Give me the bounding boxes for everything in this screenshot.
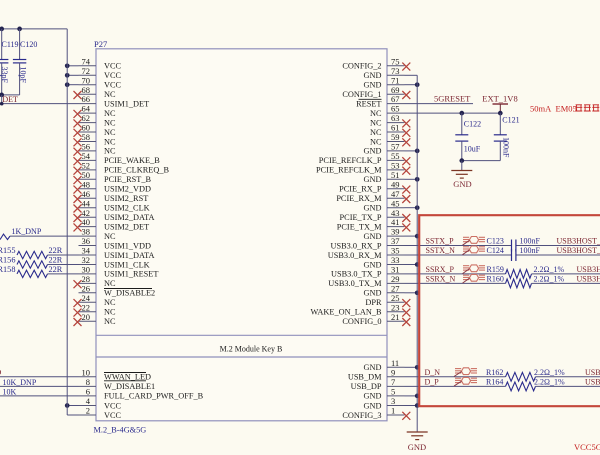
- pin 28 NC: [79, 282, 97, 284]
- wire D_P: [405, 385, 506, 387]
- pin 20 NC: [79, 320, 97, 322]
- svg-text:NC: NC: [370, 128, 382, 137]
- pin 23 WAKE_ON_LAN_B: [387, 311, 405, 313]
- svg-text:50mA: 50mA: [530, 104, 552, 114]
- capacitor C123 100nF: [511, 240, 513, 252]
- svg-text:67: 67: [391, 94, 400, 104]
- svg-text:VCC: VCC: [104, 81, 122, 90]
- svg-text:46: 46: [82, 189, 91, 199]
- capacitor C124 100nF: [511, 249, 513, 261]
- svg-text:R164: R164: [486, 378, 503, 387]
- svg-text:GND: GND: [364, 147, 382, 156]
- wire: [0, 385, 79, 387]
- svg-text:USB3.0_RX_M: USB3.0_RX_M: [328, 251, 382, 260]
- svg-text:PCIE_RST_B: PCIE_RST_B: [104, 175, 151, 184]
- svg-text:USB_DP: USB_DP: [351, 382, 382, 391]
- svg-text:GND: GND: [364, 204, 382, 213]
- pin 75 CONFIG_2: [387, 65, 405, 67]
- svg-text:R156: R156: [0, 256, 15, 265]
- svg-text:USB3HOST: USB3HOST: [577, 275, 600, 284]
- svg-text:1K_DNP: 1K_DNP: [12, 227, 42, 236]
- svg-text:EM05: EM05: [556, 104, 577, 114]
- svg-text:24: 24: [82, 293, 91, 303]
- pin 31 USB3.0_TX_P: [387, 273, 405, 275]
- svg-text:33pF: 33pF: [0, 67, 9, 84]
- pin 7 USB_DP: [387, 385, 405, 387]
- pin 69 CONFIG_1: [387, 93, 405, 95]
- svg-text:R158: R158: [0, 265, 15, 274]
- svg-text:PCIE_TX_M: PCIE_TX_M: [337, 222, 382, 231]
- svg-text:D: D: [0, 368, 2, 377]
- wire SSTX_P: [405, 245, 512, 247]
- svg-text:C124: C124: [487, 246, 504, 255]
- svg-text:10uF: 10uF: [464, 145, 481, 154]
- svg-text:EXT_1V8: EXT_1V8: [482, 93, 517, 103]
- resistor R160 2.2ohm: [506, 279, 532, 288]
- svg-text:NC: NC: [104, 128, 116, 137]
- svg-text:65: 65: [391, 104, 400, 114]
- svg-text:D_P: D_P: [425, 378, 440, 387]
- pin 3 GND: [387, 405, 405, 407]
- svg-text:37: 37: [391, 236, 400, 246]
- svg-text:R155: R155: [0, 246, 15, 255]
- pin 43 PCIE_TX_P: [387, 216, 405, 218]
- pin 60 NC: [79, 131, 97, 133]
- pin 62 NC: [79, 122, 97, 124]
- svg-text:34: 34: [82, 246, 91, 256]
- svg-text:VCC: VCC: [104, 62, 122, 71]
- svg-text:VCC: VCC: [104, 411, 122, 420]
- pin 11 GND: [387, 366, 405, 368]
- svg-text:R160: R160: [487, 275, 504, 284]
- svg-text:C120: C120: [20, 40, 37, 49]
- svg-text:75: 75: [391, 56, 400, 66]
- pin 10 WWAN_LED: [79, 376, 97, 378]
- svg-text:GND: GND: [364, 232, 382, 241]
- svg-text:GND: GND: [364, 175, 382, 184]
- svg-text:GND: GND: [408, 442, 426, 450]
- svg-text:47: 47: [391, 189, 400, 199]
- pin 45 GND: [387, 207, 405, 209]
- pin 8 W_DISABLE1: [79, 385, 97, 387]
- svg-text:SSRX_N: SSRX_N: [426, 275, 456, 284]
- pin 2 VCC: [79, 414, 97, 416]
- svg-text:R159: R159: [487, 265, 504, 274]
- pin 9 USB_DM: [387, 376, 405, 378]
- node caps bottom junction: [0, 93, 4, 98]
- svg-text:GND: GND: [364, 401, 382, 410]
- pin 68 NC: [79, 93, 97, 95]
- svg-text:C123: C123: [487, 237, 504, 246]
- svg-text:USB_: USB_: [585, 368, 600, 377]
- node C120 top junction: [17, 27, 22, 32]
- svg-text:USIM1_DET: USIM1_DET: [104, 99, 149, 108]
- svg-text:PCIE_RX_M: PCIE_RX_M: [336, 194, 382, 203]
- svg-text:11: 11: [391, 358, 399, 368]
- svg-text:USIM1_VDD: USIM1_VDD: [104, 241, 151, 250]
- svg-text:10K_DNP: 10K_DNP: [3, 378, 37, 387]
- svg-text:USB3HOST_RX_P: USB3HOST_RX_P: [557, 246, 600, 255]
- capacitor C120 10pF: [19, 29, 21, 60]
- wire D_N: [405, 376, 506, 378]
- resistor R158 22R: [17, 270, 48, 277]
- svg-text:NC: NC: [104, 109, 116, 118]
- svg-text:RESET: RESET: [356, 99, 381, 108]
- svg-text:DET: DET: [2, 95, 18, 104]
- svg-text:57: 57: [391, 142, 400, 152]
- wire EXT_1V8 rail: [405, 112, 501, 114]
- svg-text:USB3HOST_RX_P: USB3HOST_RX_P: [557, 237, 600, 246]
- wire USIM1_DET / DET net: [0, 103, 79, 105]
- svg-text:P27: P27: [94, 39, 107, 49]
- svg-text:NC: NC: [104, 118, 116, 127]
- svg-text:5: 5: [391, 387, 395, 397]
- svg-text:41: 41: [391, 217, 400, 227]
- svg-text:CONFIG_3: CONFIG_3: [342, 411, 381, 420]
- pin 27 GND: [387, 292, 405, 294]
- pin 5 GND: [387, 395, 405, 397]
- svg-text:22R: 22R: [49, 246, 63, 255]
- svg-text:USB3.0_RX_P: USB3.0_RX_P: [331, 241, 382, 250]
- pin 35 USB3.0_RX_M: [387, 254, 405, 256]
- ground (C122/C121): [461, 161, 463, 171]
- connector P27 body: [96, 49, 387, 421]
- svg-text:1: 1: [391, 406, 395, 416]
- svg-text:22R: 22R: [49, 256, 63, 265]
- svg-text:3: 3: [391, 396, 395, 406]
- pin 4 VCC: [79, 405, 97, 407]
- svg-text:M.2 Module Key B: M.2 Module Key B: [220, 345, 283, 354]
- svg-text:2: 2: [86, 406, 90, 416]
- svg-text:VCC: VCC: [104, 401, 122, 410]
- pin 40 USIM2_DET: [79, 226, 97, 228]
- svg-text:5GRESET: 5GRESET: [434, 93, 471, 103]
- svg-text:74: 74: [82, 56, 91, 66]
- pin 61 NC: [387, 131, 405, 133]
- pin 58 NC: [79, 141, 97, 143]
- diff pair directive: [455, 377, 477, 384]
- svg-text:USIM1_RESET: USIM1_RESET: [104, 270, 158, 279]
- pin 46 USIM2_RST: [79, 197, 97, 199]
- resistor R159 2.2ohm: [506, 270, 532, 279]
- pin 73 GND: [387, 74, 405, 76]
- svg-text:SSTX_N: SSTX_N: [426, 246, 456, 255]
- svg-text:44: 44: [82, 198, 91, 208]
- svg-text:30: 30: [82, 265, 91, 275]
- wire SSRX_N: [405, 282, 506, 284]
- wire SSRX_P: [405, 273, 506, 275]
- pin 25 DPR: [387, 301, 405, 303]
- pin 29 USB3.0_TX_M: [387, 282, 405, 284]
- svg-text:66: 66: [82, 94, 91, 104]
- svg-text:WAKE_ON_LAN_B: WAKE_ON_LAN_B: [311, 308, 382, 317]
- svg-text:10K: 10K: [3, 388, 17, 397]
- svg-text:25: 25: [391, 293, 400, 303]
- svg-text:6: 6: [86, 387, 90, 397]
- svg-text:61: 61: [391, 123, 400, 133]
- separator M.2 Module Key B: [96, 334, 387, 336]
- pin 47 PCIE_RX_M: [387, 197, 405, 199]
- svg-text:36: 36: [82, 236, 91, 246]
- diff pair directive: [463, 237, 485, 244]
- svg-text:NC: NC: [104, 232, 116, 241]
- svg-text:FULL_CARD_PWR_OFF_B: FULL_CARD_PWR_OFF_B: [104, 392, 204, 401]
- pin 21 CONFIG_0: [387, 320, 405, 322]
- pin 39 GND: [387, 235, 405, 237]
- svg-text:GND: GND: [364, 363, 382, 372]
- svg-text:PCIE_RX_P: PCIE_RX_P: [339, 185, 382, 194]
- svg-text:CONFIG_2: CONFIG_2: [342, 62, 381, 71]
- diff pair directive: [463, 246, 485, 253]
- wire: [0, 376, 79, 378]
- pin 71 GND: [387, 84, 405, 86]
- pin 24 NC: [79, 301, 97, 303]
- pin 22 NC: [79, 311, 97, 313]
- capacitor C121 100nF: [499, 113, 501, 135]
- pin 74 VCC: [79, 65, 97, 67]
- svg-text:PCIE_REFCLK_P: PCIE_REFCLK_P: [319, 156, 382, 165]
- wire 5GRESET: [405, 103, 474, 105]
- svg-text:100nF: 100nF: [520, 246, 541, 255]
- diff pair directive: [455, 368, 477, 375]
- svg-text:USB_: USB_: [585, 378, 600, 387]
- svg-text:NC: NC: [104, 90, 116, 99]
- svg-text:7: 7: [391, 377, 395, 387]
- svg-text:USB3.0_TX_M: USB3.0_TX_M: [328, 279, 382, 288]
- diff pair directive: [463, 274, 485, 281]
- resistor R162 2.2ohm: [506, 372, 536, 381]
- svg-text:M.2_B-4G&5G: M.2_B-4G&5G: [94, 425, 147, 434]
- svg-text:NC: NC: [104, 279, 116, 288]
- svg-text:D_N: D_N: [425, 368, 441, 377]
- svg-text:NC: NC: [104, 317, 116, 326]
- pin 37 USB3.0_RX_P: [387, 245, 405, 247]
- svg-text:GND: GND: [364, 71, 382, 80]
- node junction C121 top: [498, 111, 503, 116]
- svg-text:USIM2_CLK: USIM2_CLK: [104, 204, 150, 213]
- svg-text:USB_DM: USB_DM: [348, 373, 382, 382]
- svg-text:CONFIG_0: CONFIG_0: [342, 317, 381, 326]
- svg-text:8: 8: [86, 377, 90, 387]
- svg-text:NC: NC: [104, 298, 116, 307]
- svg-text:9: 9: [391, 367, 395, 377]
- pin 42 USIM2_DATA: [79, 216, 97, 218]
- svg-text:21: 21: [391, 312, 400, 322]
- svg-text:GND: GND: [364, 392, 382, 401]
- pin 44 USIM2_CLK: [79, 207, 97, 209]
- pin 63 NC: [387, 122, 405, 124]
- pin 64 NC: [79, 112, 97, 114]
- svg-text:GND: GND: [364, 260, 382, 269]
- svg-text:2.2Ω_1%: 2.2Ω_1%: [534, 265, 565, 274]
- svg-text:40: 40: [82, 217, 91, 227]
- node top-left junction: [0, 27, 4, 32]
- pin 50 PCIE_RST_B: [79, 178, 97, 180]
- pin 6 FULL_CARD_PWR_OFF_B: [79, 395, 97, 397]
- svg-text:NC: NC: [104, 137, 116, 146]
- svg-text:NC: NC: [104, 147, 116, 156]
- capacitor C122 10uF: [461, 113, 463, 135]
- svg-text:CONFIG_1: CONFIG_1: [342, 90, 381, 99]
- ground (main): [407, 432, 428, 440]
- pin 30 USIM1_RESET: [79, 273, 97, 275]
- wire: [0, 395, 79, 397]
- svg-text:56: 56: [82, 142, 91, 152]
- svg-text:100nF: 100nF: [502, 137, 511, 158]
- svg-text:NC: NC: [370, 109, 382, 118]
- svg-text:USB3HOST: USB3HOST: [577, 265, 600, 274]
- svg-text:70: 70: [82, 75, 91, 85]
- svg-text:NC: NC: [370, 118, 382, 127]
- svg-text:31: 31: [391, 265, 400, 275]
- svg-text:PCIE_REFCLK_M: PCIE_REFCLK_M: [316, 166, 382, 175]
- pin 51 GND: [387, 178, 405, 180]
- pin 66 USIM1_DET: [79, 103, 97, 105]
- svg-text:USB3.0_TX_P: USB3.0_TX_P: [331, 270, 382, 279]
- svg-text:NC: NC: [104, 308, 116, 317]
- resistor 1K DNP: [0, 234, 10, 240]
- svg-text:C119: C119: [2, 40, 19, 49]
- pin 1 CONFIG_3: [387, 414, 405, 416]
- pin 36 USIM1_VDD: [79, 245, 97, 247]
- pin 72 VCC: [79, 74, 97, 76]
- red highlight region: [419, 215, 600, 406]
- pin 49 PCIE_RX_P: [387, 188, 405, 190]
- svg-text:50: 50: [82, 170, 91, 180]
- node junction caps bottom: [459, 158, 464, 163]
- node junction C122 top: [459, 111, 464, 116]
- svg-text:GND: GND: [364, 81, 382, 90]
- wire VCC vertical bus: [66, 29, 68, 415]
- pin 53 PCIE_REFCLK_M: [387, 169, 405, 171]
- svg-text:10: 10: [82, 367, 91, 377]
- svg-text:WWAN_LED: WWAN_LED: [104, 373, 151, 382]
- svg-text:20: 20: [82, 312, 91, 322]
- resistor R155 22R: [17, 251, 48, 258]
- pin 54 PCIE_WAKE_B: [79, 159, 97, 161]
- resistor R156 22R: [17, 261, 48, 268]
- resistor R164 2.2ohm: [506, 382, 536, 391]
- svg-text:SSTX_P: SSTX_P: [426, 237, 455, 246]
- svg-text:51: 51: [391, 170, 400, 180]
- svg-text:2.2Ω_1%: 2.2Ω_1%: [534, 368, 565, 377]
- svg-text:27: 27: [391, 283, 400, 293]
- pin 67 RESET: [387, 103, 405, 105]
- svg-text:GND: GND: [364, 289, 382, 298]
- svg-text:PCIE_WAKE_B: PCIE_WAKE_B: [104, 156, 160, 165]
- pin 57 GND: [387, 150, 405, 152]
- svg-text:SSRX_P: SSRX_P: [426, 265, 455, 274]
- svg-text:USIM2_DET: USIM2_DET: [104, 222, 149, 231]
- pin 59 NC: [387, 141, 405, 143]
- svg-text:R162: R162: [486, 368, 503, 377]
- pin 65 NC: [387, 112, 405, 114]
- pin 32 USIM1_CLK: [79, 264, 97, 266]
- svg-text:2.2Ω_1%: 2.2Ω_1%: [534, 275, 565, 284]
- svg-text:55: 55: [391, 151, 400, 161]
- wire top horizontal: [0, 28, 67, 30]
- svg-text:PCIE_CLKREQ_B: PCIE_CLKREQ_B: [104, 166, 169, 175]
- capacitor C119 33pF: [1, 29, 3, 60]
- pin 52 PCIE_CLKREQ_B: [79, 169, 97, 171]
- svg-text:60: 60: [82, 123, 91, 133]
- svg-text:USIM1_DATA: USIM1_DATA: [104, 251, 155, 260]
- pin 34 USIM1_DATA: [79, 254, 97, 256]
- svg-text:54: 54: [82, 151, 91, 161]
- pin 56 NC: [79, 150, 97, 152]
- note chinese chars: [575, 105, 599, 111]
- pin 33 GND: [387, 264, 405, 266]
- pin 38 NC: [79, 235, 97, 237]
- power port EXT_1V8: [493, 103, 509, 105]
- svg-text:PCIE_TX_P: PCIE_TX_P: [340, 213, 382, 222]
- svg-text:45: 45: [391, 198, 400, 208]
- svg-text:W_DISABLE2: W_DISABLE2: [104, 289, 155, 298]
- wire down to DET: [1, 95, 3, 104]
- pin 26 W_DISABLE2: [79, 292, 97, 294]
- wire caps bottom: [462, 160, 501, 162]
- svg-text:100nF: 100nF: [520, 237, 541, 246]
- wire GND bus: [416, 75, 418, 432]
- svg-text:VCC5G: VCC5G: [574, 442, 600, 450]
- svg-text:C121: C121: [502, 115, 519, 124]
- svg-text:26: 26: [82, 283, 91, 293]
- pin 70 VCC: [79, 84, 97, 86]
- svg-text:35: 35: [391, 246, 400, 256]
- svg-text:C122: C122: [464, 119, 481, 128]
- svg-text:2.2Ω_1%: 2.2Ω_1%: [534, 378, 565, 387]
- svg-text:NC: NC: [370, 137, 382, 146]
- wire SSTX_N: [405, 254, 512, 256]
- svg-text:64: 64: [82, 104, 91, 114]
- svg-text:GND: GND: [453, 179, 471, 189]
- svg-text:DPR: DPR: [365, 298, 382, 307]
- pin 48 USIM2_VDD: [79, 188, 97, 190]
- svg-text:W_DISABLE1: W_DISABLE1: [104, 382, 155, 391]
- svg-text:USIM2_DATA: USIM2_DATA: [104, 213, 155, 222]
- svg-text:USIM1_CLK: USIM1_CLK: [104, 260, 150, 269]
- svg-text:10pF: 10pF: [19, 67, 28, 84]
- wire caps bottom: [2, 94, 20, 96]
- diff pair directive: [463, 265, 485, 272]
- pin 55 PCIE_REFCLK_P: [387, 159, 405, 161]
- svg-text:22R: 22R: [49, 265, 63, 274]
- svg-text:USIM2_RST: USIM2_RST: [104, 194, 148, 203]
- pin 41 PCIE_TX_M: [387, 226, 405, 228]
- svg-text:VCC: VCC: [104, 71, 122, 80]
- svg-text:71: 71: [391, 75, 400, 85]
- svg-text:USIM2_VDD: USIM2_VDD: [104, 185, 151, 194]
